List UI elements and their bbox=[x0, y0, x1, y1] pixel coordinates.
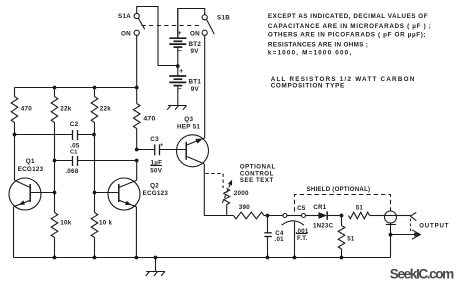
node C2 right / Q2 base rail bbox=[92, 133, 96, 137]
dashed coax link output bbox=[409, 219, 411, 234]
switch gang dashed link bbox=[142, 25, 202, 27]
capacitor C4 .01 bbox=[264, 216, 284, 258]
battery BT2 bbox=[169, 9, 201, 66]
svg-text:9V: 9V bbox=[191, 86, 200, 93]
node Q2 base bbox=[93, 191, 97, 195]
svg-text:C2: C2 bbox=[70, 121, 79, 128]
svg-text:ON: ON bbox=[121, 30, 131, 37]
node R8 bottom bbox=[340, 256, 344, 260]
svg-text:+: + bbox=[179, 68, 183, 75]
transistor Q2 ECG123 bbox=[95, 161, 169, 258]
node C4 bottom bbox=[266, 256, 270, 260]
chassis ground bottom bbox=[146, 258, 165, 276]
svg-text:50V: 50V bbox=[150, 168, 163, 175]
svg-text:COMPOSITION TYPE: COMPOSITION TYPE bbox=[271, 83, 345, 90]
rheostat 2000 optional control bbox=[205, 174, 249, 216]
node rail R6 bbox=[93, 256, 97, 260]
svg-text:2000: 2000 bbox=[234, 190, 249, 197]
svg-text:CAPACITANCE ARE IN MICROFARADS: CAPACITANCE ARE IN MICROFARADS ( µF ) ; bbox=[268, 23, 432, 30]
svg-text:+: + bbox=[160, 142, 163, 148]
svg-text:C3: C3 bbox=[150, 136, 159, 143]
wire S1A ON contact to top rail bbox=[136, 35, 138, 87]
svg-text:BT1: BT1 bbox=[189, 79, 202, 86]
capacitor C3 1uF 50V bbox=[137, 136, 187, 175]
svg-text:.05: .05 bbox=[70, 142, 80, 149]
shield optional dashed box bbox=[295, 186, 391, 211]
svg-text:+: + bbox=[178, 30, 182, 37]
svg-text:9V: 9V bbox=[191, 48, 200, 55]
node top rail / R4 / S1A bbox=[135, 86, 139, 90]
resistor R7 390 bbox=[234, 204, 283, 219]
wire Q3 emitter to S1B bbox=[204, 35, 206, 137]
resistor R4 470 bbox=[133, 88, 155, 150]
svg-text:CR1: CR1 bbox=[313, 204, 326, 211]
svg-text:SeekIC.com: SeekIC.com bbox=[390, 266, 454, 281]
wire Q3 collector down bbox=[204, 164, 233, 216]
svg-text:.01: .01 bbox=[275, 236, 285, 243]
svg-text:C5: C5 bbox=[297, 205, 306, 212]
svg-text:470: 470 bbox=[143, 115, 155, 122]
resistor R1 470 bbox=[11, 88, 32, 135]
node rail Q2 emitter bbox=[135, 256, 139, 260]
node jack shield bbox=[389, 233, 393, 237]
svg-text:k=1000, M=1000 000,: k=1000, M=1000 000, bbox=[268, 49, 352, 56]
resistor R8 51 shunt bbox=[338, 216, 355, 258]
label optional control bbox=[240, 164, 276, 184]
resistor R5 10k bbox=[51, 193, 72, 258]
node C1 left / Q1 base rail bbox=[53, 159, 57, 163]
capacitor C1 .068 bbox=[55, 150, 137, 175]
notes text block bbox=[268, 13, 432, 90]
svg-text:OTHERS ARE IN PICOFARADS ( pF: OTHERS ARE IN PICOFARADS ( pF OR µµF); bbox=[268, 32, 426, 39]
transistor Q1 ECG123 bbox=[9, 135, 55, 211]
svg-text:51: 51 bbox=[347, 236, 355, 243]
svg-text:10k: 10k bbox=[60, 220, 72, 227]
svg-text:HEP 51: HEP 51 bbox=[177, 124, 200, 131]
svg-text:ON: ON bbox=[190, 30, 200, 37]
node top rail / 22k R2 bbox=[53, 86, 57, 90]
resistor R9 51 series bbox=[349, 204, 385, 219]
svg-text:S1B: S1B bbox=[217, 14, 230, 21]
battery BT1 bbox=[169, 66, 201, 106]
node battery junction bbox=[176, 64, 180, 68]
svg-text:SHIELD (OPTIONAL): SHIELD (OPTIONAL) bbox=[307, 186, 371, 193]
capacitor C2 .05 bbox=[15, 121, 95, 149]
svg-text:EXCEPT AS INDICATED, DECIMAL V: EXCEPT AS INDICATED, DECIMAL VALUES OF bbox=[268, 13, 428, 20]
svg-text:ECG123: ECG123 bbox=[18, 166, 44, 173]
transistor Q3 HEP 51 bbox=[177, 116, 209, 167]
node C1 right / Q2 collector rail bbox=[135, 159, 139, 163]
svg-text:BT2: BT2 bbox=[189, 41, 202, 48]
node rail ground bbox=[154, 256, 158, 260]
switch S1A bbox=[118, 7, 178, 66]
resistor R2 22k bbox=[51, 88, 72, 193]
svg-text:Q1: Q1 bbox=[26, 158, 35, 165]
node rail R5 bbox=[53, 256, 57, 260]
svg-text:470: 470 bbox=[21, 106, 33, 113]
output jack J1 bbox=[385, 211, 397, 258]
switch S1B bbox=[178, 9, 230, 39]
wire top rail bbox=[15, 87, 137, 89]
feedthrough capacitor C5 .001 bbox=[282, 205, 309, 258]
svg-text:S1A: S1A bbox=[118, 13, 131, 20]
svg-text:.068: .068 bbox=[65, 168, 79, 175]
svg-text:RESISTANCES ARE IN OHMS ;: RESISTANCES ARE IN OHMS ; bbox=[268, 41, 368, 48]
diode CR1 1N23C bbox=[306, 204, 342, 229]
svg-text:Q2: Q2 bbox=[150, 182, 159, 189]
wire Q1 emitter to bottom rail bbox=[13, 207, 15, 258]
resistor R6 10k bbox=[91, 193, 112, 258]
svg-text:C1: C1 bbox=[70, 150, 78, 156]
resistor R3 22k bbox=[91, 88, 111, 193]
svg-text:51: 51 bbox=[356, 204, 364, 211]
svg-text:−: − bbox=[178, 48, 182, 55]
node C4 top bbox=[266, 214, 270, 218]
node C5 ground bbox=[293, 256, 297, 260]
node C2 left / Q1 collector rail bbox=[13, 133, 17, 137]
svg-text:OUTPUT: OUTPUT bbox=[419, 223, 449, 230]
node C3 row / R4 bbox=[135, 148, 139, 152]
svg-text:10 k: 10 k bbox=[99, 220, 113, 227]
wire bottom rail bbox=[14, 257, 391, 259]
svg-text:22k: 22k bbox=[60, 106, 72, 113]
svg-text:390: 390 bbox=[239, 204, 251, 211]
svg-text:Q3: Q3 bbox=[184, 116, 193, 123]
svg-text:1N23C: 1N23C bbox=[313, 223, 334, 230]
node CR1 / 51 shunt bbox=[340, 214, 344, 218]
svg-text:−: − bbox=[178, 86, 182, 93]
svg-text:ECG123: ECG123 bbox=[143, 190, 169, 197]
node top rail / 22k R3 bbox=[93, 86, 97, 90]
wire output lead and connector arrow bbox=[397, 212, 450, 229]
svg-text:22k: 22k bbox=[100, 106, 112, 113]
ground arrow from jack shield bbox=[391, 230, 421, 240]
svg-text:F.T.: F.T. bbox=[297, 235, 308, 242]
ground below BT1 bbox=[167, 106, 186, 110]
node Q1 base bbox=[53, 191, 57, 195]
svg-text:SEE TEXT: SEE TEXT bbox=[240, 177, 274, 184]
